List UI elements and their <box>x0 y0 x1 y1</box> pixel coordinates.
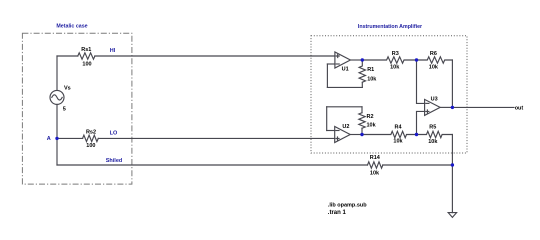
resistor R1 <box>359 60 365 82</box>
wire LO net Rs2 to U2 + input <box>98 137 334 139</box>
svg-text:U1: U1 <box>342 67 349 73</box>
resistor R3 <box>362 57 416 63</box>
svg-text:out: out <box>515 106 524 112</box>
junction U3 output node <box>451 106 454 109</box>
wire source bottom vertical to shield row <box>56 104 58 165</box>
resistor R4 <box>362 131 417 137</box>
wire out net <box>452 106 514 108</box>
svg-text:100: 100 <box>86 143 95 149</box>
wire U2 feedback left vertical <box>326 107 328 131</box>
resistor Rs2 <box>83 135 99 141</box>
svg-text:HI: HI <box>110 48 116 54</box>
svg-text:R3: R3 <box>392 51 399 57</box>
svg-text:R14: R14 <box>370 155 381 161</box>
wire U2 minus input stub <box>327 130 335 132</box>
resistor R5 <box>417 131 453 137</box>
junction U1 output node <box>361 58 364 61</box>
wire R1 bottom lead <box>361 83 363 88</box>
wire node A to Rs2 <box>57 137 83 139</box>
svg-text:Rs1: Rs1 <box>81 47 91 53</box>
svg-text:Vs: Vs <box>64 86 71 92</box>
svg-text:LO: LO <box>110 131 118 137</box>
svg-text:R2: R2 <box>367 114 374 120</box>
junction R3/R6 node <box>415 58 418 61</box>
svg-text:10k: 10k <box>429 65 439 71</box>
resistor R14 <box>368 162 383 168</box>
op-amp U2 <box>335 127 351 143</box>
wire U3 minus input vertical from R3/R6 node <box>417 60 425 103</box>
wire U1 minus input stub <box>327 63 335 65</box>
svg-text:5: 5 <box>63 107 66 113</box>
wire R6 right down to out node <box>451 60 453 107</box>
resistor Rs1 <box>78 53 95 59</box>
svg-text:R1: R1 <box>367 67 374 73</box>
wire U1 feedback bottom <box>327 86 362 88</box>
svg-text:A: A <box>47 136 51 142</box>
U1 plus mark <box>336 55 339 58</box>
junction node A <box>55 137 58 140</box>
voltage source sine wave <box>52 95 62 100</box>
wire shield row <box>57 164 368 166</box>
wire shield junction down to ground <box>451 165 453 213</box>
metalic case dash-dot box <box>22 33 131 184</box>
wire HI net Rs1 to U1 + input <box>95 55 335 57</box>
wire U3 plus input vertical to R4/R5 node <box>417 111 425 134</box>
svg-text:U2: U2 <box>342 124 349 130</box>
wire U2 output to node <box>350 134 362 136</box>
wire source top vertical <box>56 56 58 90</box>
svg-text:Metalic case: Metalic case <box>56 23 87 29</box>
svg-text:100: 100 <box>82 62 91 68</box>
wire R2 bottom lead to node <box>361 128 363 134</box>
svg-text:.lib opamp.sub: .lib opamp.sub <box>328 203 367 209</box>
U3 plus mark <box>426 110 429 113</box>
resistor R6 <box>417 57 453 63</box>
U1 minus mark <box>336 63 339 65</box>
wire R2 top lead <box>361 107 363 113</box>
U2 plus mark <box>336 137 339 140</box>
wire top-left corner to Rs1 <box>57 55 78 57</box>
svg-text:R4: R4 <box>394 124 402 130</box>
junction R4/R5 node <box>415 133 418 136</box>
instrumentation amplifier dotted box <box>311 36 467 153</box>
svg-text:Shiled: Shiled <box>106 158 123 164</box>
ground <box>448 213 456 218</box>
junction shield/ground node <box>451 163 454 166</box>
wire U2 feedback top <box>327 106 362 108</box>
svg-text:Instrumentation Amplifier: Instrumentation Amplifier <box>358 24 422 30</box>
resistor R2 <box>359 113 365 129</box>
svg-text:10k: 10k <box>393 139 403 145</box>
wire U3 output <box>440 106 452 108</box>
svg-text:.tran 1: .tran 1 <box>328 210 347 216</box>
svg-text:R5: R5 <box>429 124 436 130</box>
svg-text:10k: 10k <box>370 170 380 176</box>
junction U2 output node <box>360 133 363 136</box>
wire U1 feedback left vertical <box>326 64 328 87</box>
svg-text:Rs2: Rs2 <box>86 129 96 135</box>
U2 minus mark <box>336 130 339 132</box>
svg-text:U3: U3 <box>431 97 438 103</box>
wire R5 right down to shield junction <box>451 135 453 166</box>
svg-text:10k: 10k <box>428 139 438 145</box>
voltage source Vs circle <box>50 90 64 104</box>
op-amp U1 <box>335 52 351 68</box>
svg-text:10k: 10k <box>367 77 377 83</box>
U3 minus mark <box>426 102 429 104</box>
svg-text:10k: 10k <box>390 65 400 71</box>
svg-text:10k: 10k <box>367 123 377 129</box>
svg-text:R6: R6 <box>430 51 437 57</box>
op-amp U3 <box>425 99 441 115</box>
wire U1 output to node <box>350 59 362 61</box>
wire shield R14 to ground junction <box>383 164 453 166</box>
